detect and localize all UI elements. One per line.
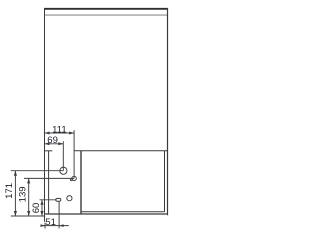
cabinet shelf segment — [45, 150, 53, 152]
dimension 139 — [27, 178, 30, 216]
svg-text:139: 139 — [18, 186, 29, 202]
cabinet bottom edge — [45, 213, 168, 215]
keyhole tab — [70, 179, 72, 181]
hole top hinge (large circle) — [60, 167, 67, 174]
hole bottom circle — [67, 196, 72, 201]
door panel inner right edge — [164, 151, 166, 212]
extension line vertical below slot to dim 51 — [58, 201, 60, 228]
hole small keyhole circle — [72, 176, 76, 180]
svg-text:111: 111 — [52, 124, 66, 135]
svg-text:171: 171 — [4, 183, 15, 199]
extension line horizontal to slot from dim 60 — [40, 199, 57, 201]
slot hole — [56, 198, 61, 201]
dimension 51 — [41, 223, 69, 229]
dimension 171 — [14, 171, 17, 216]
cabinet top edge — [44, 8, 168, 10]
extension line vertical to small circle from dim 111 — [73, 130, 75, 178]
cabinet right edge — [167, 8, 169, 215]
door panel inner bottom edge — [81, 211, 165, 213]
cabinet inner wall line — [48, 151, 50, 214]
door panel left edge — [80, 151, 82, 214]
dimension 60 — [40, 200, 43, 216]
svg-text:69: 69 — [47, 135, 58, 146]
cabinet left edge — [44, 8, 46, 222]
door panel top edge — [74, 150, 167, 152]
svg-text:60: 60 — [31, 203, 42, 214]
dimension 111 — [45, 132, 75, 135]
svg-text:51: 51 — [45, 217, 56, 228]
cabinet top inner gray line — [45, 14, 168, 16]
dimension 69 — [45, 142, 64, 145]
extension line vertical to large circle from dim 69 — [62, 141, 64, 171]
extension line horizontal to small circle from dim 139 — [24, 177, 74, 179]
bottom reference extension line — [11, 215, 45, 217]
extension line horizontal to large circle from dim 171 — [11, 170, 64, 172]
